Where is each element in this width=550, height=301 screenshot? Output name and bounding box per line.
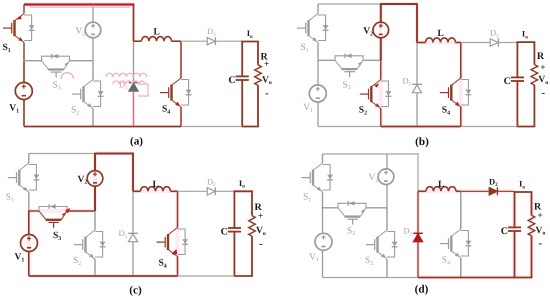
wire D2 to load (c) xyxy=(216,190,234,192)
svg-text:C: C xyxy=(504,76,511,87)
wire top rail to V2 (b) xyxy=(380,4,382,22)
wire S2 to bottom rail (a) xyxy=(92,109,94,127)
freewheel diode of S1 (c) xyxy=(29,165,40,191)
transistor S4 (b) xyxy=(440,78,461,107)
wire top rail corner down to inductor node (c) xyxy=(132,154,134,192)
wire S1 emitter to S3 node (a) xyxy=(23,43,25,61)
wire bottom rail segment 2 (a) xyxy=(181,126,242,128)
wire S3 to middle branch (b) xyxy=(363,59,381,61)
wire V2 to S3 node (b) xyxy=(380,38,382,61)
wire S3 to middle branch (c) xyxy=(67,210,95,212)
voltage source V2 (a) xyxy=(85,22,101,38)
voltage source V1 (a) xyxy=(15,83,32,100)
wire S1 emitter to S3 node (d) xyxy=(322,192,324,208)
wire capacitor to load box bottom (c) xyxy=(233,232,235,276)
svg-text:L: L xyxy=(438,180,444,190)
voltage source V1 (c) xyxy=(21,235,38,252)
diode D2 (b) xyxy=(490,39,498,47)
wire S2 to bottom rail (c) xyxy=(94,259,96,276)
wire left branch top (a) xyxy=(23,5,25,14)
ghost pink coil artifact (a) xyxy=(106,73,147,77)
wire load box right top (c) xyxy=(251,191,253,215)
ghost pink bracket artifact (a) xyxy=(138,84,148,96)
pink underline of top rail (a) xyxy=(30,6,130,8)
wire top rail right segment (a) xyxy=(92,3,134,5)
wire resistor to load box bottom (a) xyxy=(257,85,259,126)
freewheel diode of S1 (d) xyxy=(323,165,334,191)
capacitor C (d) xyxy=(508,227,521,231)
pink halo active path (c) xyxy=(29,154,178,277)
wire V1 to bottom rail (a) xyxy=(23,100,25,127)
wire S3 to middle branch (d) xyxy=(366,207,387,209)
wire load box right top (a) xyxy=(257,42,259,65)
wire D1 to bottom rail (c) xyxy=(132,242,134,276)
inductor L (a) xyxy=(134,40,142,42)
svg-text:L: L xyxy=(153,180,159,190)
svg-text:C: C xyxy=(501,226,508,237)
wire load box top (c) xyxy=(234,190,253,192)
voltage source V2 (d) xyxy=(378,169,394,185)
svg-text:(a): (a) xyxy=(130,136,143,148)
svg-text:-: - xyxy=(539,238,543,250)
transistor S2 (c) xyxy=(74,230,95,259)
wire S4 to bottom rail (a) xyxy=(180,107,182,127)
wire S3 node to S2 (b) xyxy=(380,60,382,79)
wire V2 to S3 node (c) xyxy=(94,186,96,211)
wire S4 to bottom rail (d) xyxy=(460,258,462,278)
wire V1 to bottom rail (b) xyxy=(317,102,319,127)
wire left branch top (b) xyxy=(317,4,319,14)
svg-text:(d): (d) xyxy=(415,284,429,296)
transistor S4 (c) xyxy=(157,228,178,257)
wire inductor node to D1 (b) xyxy=(416,43,418,85)
wire D1 to bottom rail (b) xyxy=(416,93,418,127)
svg-text:R: R xyxy=(537,51,545,62)
transistor S3 (d) xyxy=(338,208,366,225)
wire inductor node to D1 (c) xyxy=(132,191,134,233)
wire S4 node to D2 (c) xyxy=(178,190,207,192)
resistor R (b) xyxy=(531,65,538,86)
diode D1 (b) xyxy=(412,84,422,92)
wire top rail right segment (d) xyxy=(386,153,419,155)
wire resistor to load box bottom (c) xyxy=(251,236,253,276)
wire S4 node to D2 (b) xyxy=(461,42,490,44)
bright red arrow S4 collector (a) xyxy=(176,102,181,106)
wire load box right top (b) xyxy=(533,42,535,64)
wire resistor to load box bottom (d) xyxy=(531,236,533,278)
transistor S3 (c) xyxy=(39,211,67,228)
wire load box left / capacitor branch (c) xyxy=(233,191,235,228)
transistor S1 (a) xyxy=(3,14,24,43)
wire inductor to S4 (c) xyxy=(177,191,179,227)
wire V2 to S3 node (d) xyxy=(386,185,388,208)
wire left node of S3 (a) xyxy=(23,60,41,62)
svg-text:-: - xyxy=(541,87,545,99)
wire D2 to load (d) xyxy=(498,190,515,192)
voltage source V1 (d) xyxy=(315,233,332,250)
transistor S4 (a) xyxy=(160,78,181,107)
wire top rail left segment (d) xyxy=(323,153,388,155)
wire S1 emitter to S3 node (b) xyxy=(317,43,319,61)
transistor S4 (d) xyxy=(440,229,461,258)
wire capacitor to load box bottom (b) xyxy=(516,81,518,127)
svg-text:-: - xyxy=(265,87,269,99)
pink halo active path (b) xyxy=(381,4,461,127)
freewheel diode of S1 (b) xyxy=(318,15,329,41)
wire S2 to bottom rail (d) xyxy=(386,259,388,278)
wire V2 to S3 node (a) xyxy=(92,38,94,61)
svg-text:+: + xyxy=(264,59,269,69)
wire D1 to bottom rail (a) xyxy=(133,91,135,127)
bright red arrow S4 collector (b) xyxy=(455,102,460,106)
wire top rail corner down to inductor node (b) xyxy=(416,4,418,43)
wire top rail to V2 (c) xyxy=(94,154,96,171)
wire top rail to V2 (d) xyxy=(386,154,388,169)
wire D2 to load (a) xyxy=(216,40,242,42)
svg-text:(b): (b) xyxy=(415,136,429,148)
svg-text:+: + xyxy=(538,210,543,220)
wire S4 node to D2 (a) xyxy=(181,40,207,42)
wire S3 node to S2 (d) xyxy=(386,208,388,230)
voltage source V1 (b) xyxy=(309,85,326,102)
wire S3 node to V1 (c) xyxy=(28,211,30,235)
wire V1 to bottom rail (c) xyxy=(28,252,30,277)
voltage source V2 (b) xyxy=(373,22,389,38)
svg-text:C: C xyxy=(221,226,228,237)
series diode of S3 (d) xyxy=(338,201,366,208)
wire S4 to bottom rail (b) xyxy=(460,107,462,127)
freewheel diode of S2 (b) xyxy=(381,81,392,107)
wire load box bottom (a) xyxy=(241,126,259,128)
wire load box right top (d) xyxy=(531,192,533,215)
diode D2 (c) xyxy=(207,187,215,195)
wire top rail corner down to inductor node (d) xyxy=(417,154,419,191)
wire capacitor to load box bottom (a) xyxy=(241,80,243,127)
wire left branch top (c) xyxy=(28,154,30,164)
wire left node of S3 (c) xyxy=(28,210,39,212)
freewheel diode of S4 (a) xyxy=(181,80,192,106)
pink artifact arc near S3 gate (a) xyxy=(61,73,74,79)
bright red corner arrow S1 (a) xyxy=(16,16,22,20)
wire load box bottom (b) xyxy=(517,126,536,128)
wire bottom rail segment 1 (b) xyxy=(318,126,381,128)
wire bottom rail segment 1 (c) xyxy=(29,275,178,277)
diode D2 (d) xyxy=(489,187,497,195)
inductor L (d) xyxy=(418,190,426,192)
wire S2 to bottom rail (b) xyxy=(380,109,382,127)
wire S4 to bottom rail (c) xyxy=(177,257,179,277)
diode D2 (a) xyxy=(207,37,215,45)
svg-text:C: C xyxy=(228,75,235,86)
wire bottom rail segment 1 (d) xyxy=(323,277,419,279)
wire load box left / capacitor branch (b) xyxy=(516,42,518,77)
transistor S1 (b) xyxy=(297,14,318,43)
series diode of S3 (b) xyxy=(335,54,363,61)
svg-text:L: L xyxy=(154,28,160,38)
wire bottom rail segment 2 (c) xyxy=(178,275,235,277)
resistor R (a) xyxy=(255,65,262,86)
pink segment below D1 (a) xyxy=(133,92,135,127)
resistor R (d) xyxy=(528,215,535,236)
inductor L (c) xyxy=(133,190,141,192)
transistor S2 (a) xyxy=(72,80,93,109)
freewheel diode of S2 (d) xyxy=(387,232,398,258)
wire inductor to S4 (d) xyxy=(460,191,462,229)
wire left branch top (d) xyxy=(322,154,324,163)
wire top rail right segment (b) xyxy=(380,3,418,5)
wire load box bottom (d) xyxy=(514,277,533,279)
wire resistor to load box bottom (b) xyxy=(533,85,535,127)
transistor S3 (b) xyxy=(335,60,363,77)
wire load box top (d) xyxy=(514,191,533,193)
transistor S2 (d) xyxy=(366,230,387,259)
wire left node of S3 (b) xyxy=(317,59,335,61)
wire V1 to bottom rail (d) xyxy=(322,250,324,277)
wire capacitor to load box bottom (d) xyxy=(514,231,516,278)
wire load box left / capacitor branch (a) xyxy=(241,42,243,77)
wire load box bottom (c) xyxy=(234,275,253,277)
wire top rail left segment (b) xyxy=(318,3,381,5)
svg-text:+: + xyxy=(540,62,545,72)
freewheel diode of S1 (a) xyxy=(24,15,35,41)
freewheel diode of S4 (c) xyxy=(178,229,189,255)
wire bottom rail segment 3 (b) xyxy=(461,126,518,128)
wire S3 node to V1 (b) xyxy=(317,60,319,85)
pink halo active path (d) xyxy=(418,191,532,277)
wire inductor to S4 (b) xyxy=(460,43,462,79)
diode D1 (d) xyxy=(413,233,423,242)
wire S3 to middle branch (a) xyxy=(70,60,94,62)
wire top rail left segment (c) xyxy=(29,153,95,155)
series diode of S3 (c) xyxy=(39,204,67,211)
wire top rail corner down to inductor node (a) xyxy=(133,5,135,42)
svg-text:(c): (c) xyxy=(129,285,142,297)
wire inductor to S4 (a) xyxy=(180,41,182,78)
wire D2 to load (b) xyxy=(499,42,517,44)
resistor R (c) xyxy=(249,216,256,237)
bright red arrow S3 emitter (c) xyxy=(65,208,70,214)
wire bottom rail segment 2 (d) xyxy=(418,277,515,279)
transistor S2 (b) xyxy=(360,80,381,109)
transistor S1 (c) xyxy=(8,163,29,192)
wire inductor node to D1 (d) xyxy=(417,191,419,233)
wire S3 node to S2 (c) xyxy=(94,211,96,230)
wire S1 emitter to S3 node (c) xyxy=(28,192,30,211)
bright red arrow S4 emitter (c) xyxy=(173,249,177,254)
wire top rail right segment (c) xyxy=(94,153,134,155)
wire load box top (a) xyxy=(241,41,259,43)
bright red arrow S2 collector (b) xyxy=(374,83,379,87)
freewheel diode of S4 (d) xyxy=(461,231,472,257)
wire bottom rail segment 1 (a) xyxy=(24,126,181,128)
diode D1 (c) xyxy=(128,233,138,241)
svg-text:-: - xyxy=(259,238,263,250)
capacitor C (c) xyxy=(228,228,241,232)
transistor S1 (d) xyxy=(302,163,323,192)
wire S4 node to D2 (d) xyxy=(461,190,489,192)
capacitor C (b) xyxy=(511,77,524,81)
svg-text:L: L xyxy=(438,29,444,39)
freewheel diode of S4 (b) xyxy=(461,80,472,106)
wire top rail to V2 (a) xyxy=(92,5,94,23)
wire S3 node to V1 (d) xyxy=(322,208,324,234)
pink halo active path (a) xyxy=(24,3,134,7)
wire S3 node to V1 (a) xyxy=(23,61,25,83)
capacitor C (a) xyxy=(236,76,249,80)
wire S3 node to S2 (a) xyxy=(92,61,94,80)
wire inductor node to D1 (a) xyxy=(133,41,135,82)
wire bottom rail segment 2 (b) xyxy=(381,126,461,128)
voltage source V2 (c) xyxy=(87,171,103,187)
wire left node of S3 (d) xyxy=(322,207,338,209)
wire load box left / capacitor branch (d) xyxy=(514,192,516,227)
wire top rail left segment (a) xyxy=(24,3,93,5)
wire load box top (b) xyxy=(517,41,536,43)
wire D1 to bottom rail (d) xyxy=(417,242,419,278)
freewheel diode of S2 (a) xyxy=(93,81,104,107)
inductor L (b) xyxy=(417,42,426,44)
freewheel diode of S2 (c) xyxy=(95,232,106,258)
transistor S3 (a) xyxy=(42,61,70,78)
series diode of S3 (a) xyxy=(42,54,70,61)
svg-text:+: + xyxy=(258,210,263,220)
diode D1 (a) xyxy=(129,83,139,92)
